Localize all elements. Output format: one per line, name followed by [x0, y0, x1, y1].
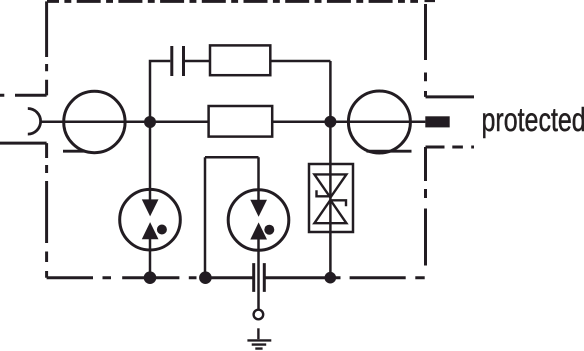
svg-text:protected: protected: [482, 102, 584, 139]
